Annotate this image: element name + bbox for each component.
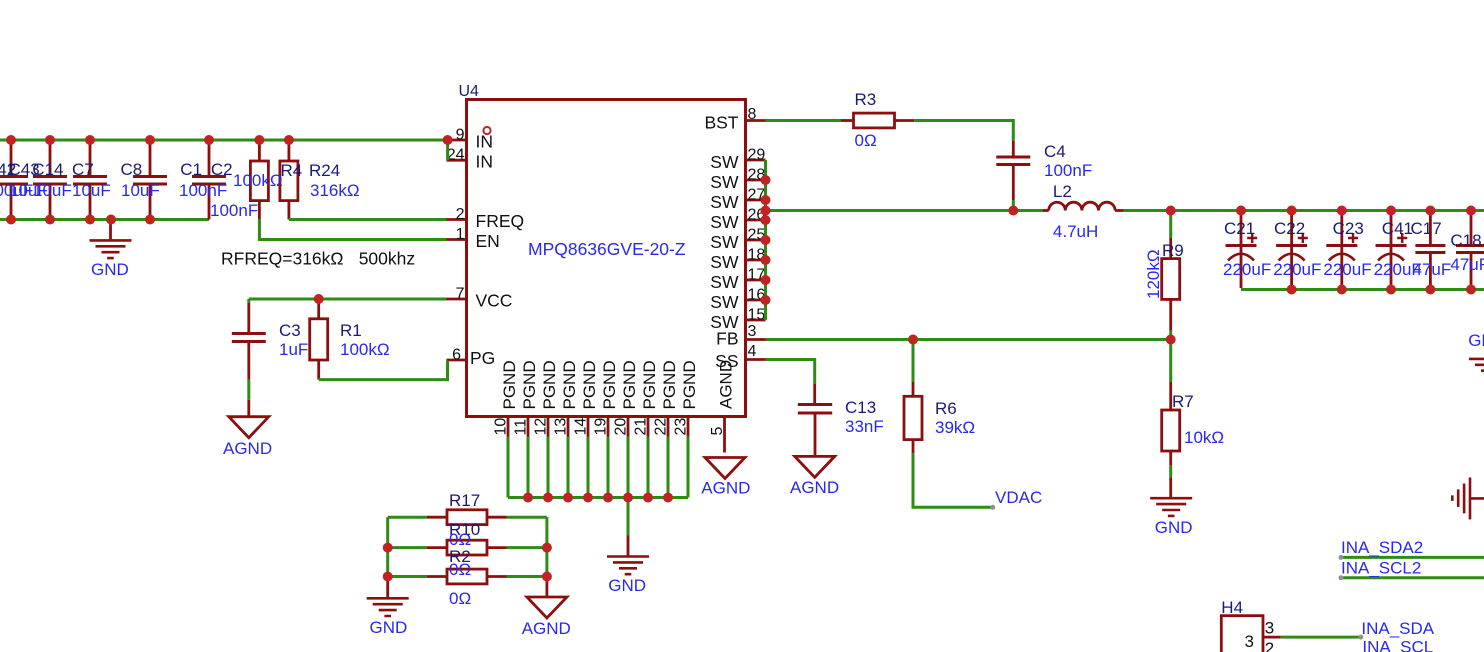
- wire R9 top: [1169, 211, 1172, 239]
- wire EN: [259, 219, 446, 240]
- svg-text:12: 12: [533, 418, 550, 436]
- lead AGND C3: [247, 400, 250, 416]
- svg-text:10uF: 10uF: [72, 181, 111, 200]
- wire VOUT rail: [1124, 209, 1484, 212]
- svg-text:47uF: 47uF: [1413, 260, 1452, 279]
- svg-text:47uF: 47uF: [1450, 255, 1484, 274]
- pin 8 BST stub: [746, 119, 766, 122]
- connector H4 body: [1221, 616, 1263, 652]
- svg-text:220uF: 220uF: [1323, 260, 1371, 279]
- pin 3 FB stub: [746, 338, 766, 341]
- junction out top: [1386, 206, 1396, 216]
- svg-text:24: 24: [447, 147, 465, 164]
- svg-text:10kΩ: 10kΩ: [1184, 428, 1224, 447]
- resistor R7: [1162, 410, 1180, 451]
- junction PGND: [523, 493, 533, 503]
- pin 28 SW stub: [746, 179, 766, 182]
- svg-text:R7: R7: [1172, 392, 1194, 411]
- pin 15 SW stub: [746, 319, 766, 322]
- pin 14 PGND stub: [587, 417, 590, 437]
- svg-text:AGND: AGND: [717, 360, 736, 409]
- svg-text:AGND: AGND: [223, 439, 272, 458]
- svg-text:15: 15: [748, 307, 766, 324]
- svg-text:14: 14: [573, 418, 590, 436]
- junction: [204, 135, 214, 145]
- svg-text:10uF: 10uF: [121, 181, 160, 200]
- pin 2 FREQ stub: [447, 218, 467, 221]
- lead left R17: [427, 516, 447, 519]
- svg-text:L2: L2: [1053, 182, 1072, 201]
- lead R4 top: [258, 140, 261, 161]
- junction out top: [1466, 206, 1476, 216]
- junction: [6, 215, 16, 225]
- svg-text:BST: BST: [704, 113, 738, 133]
- ground GND input caps: [90, 240, 132, 258]
- wire trio right: [507, 517, 547, 576]
- wire R3 to C4: [914, 121, 1013, 142]
- inductor L2: [1049, 202, 1115, 210]
- svg-text:R3: R3: [855, 90, 877, 109]
- wire C3 top corner: [247, 299, 250, 303]
- net anchor INA_SCL2: [1339, 575, 1344, 580]
- svg-text:RFREQ=316kΩ: RFREQ=316kΩ: [221, 249, 344, 269]
- junction out bottom: [1466, 285, 1476, 295]
- svg-text:AGND: AGND: [701, 479, 750, 498]
- svg-text:VDAC: VDAC: [995, 488, 1042, 507]
- resistor R3: [854, 113, 895, 128]
- svg-text:C3: C3: [279, 321, 301, 340]
- resistor R17: [447, 510, 487, 525]
- svg-text:316kΩ: 316kΩ: [310, 181, 360, 200]
- junction out top: [1236, 206, 1246, 216]
- lead R9 bottom: [1169, 299, 1172, 330]
- svg-text:100nF: 100nF: [179, 181, 227, 200]
- wire to pin 24: [446, 140, 449, 160]
- svg-text:C4: C4: [1044, 142, 1066, 161]
- op-amp U4 MPQ8636GVE-20-Z body: [467, 100, 746, 417]
- wire C4 to SW: [1012, 200, 1015, 211]
- svg-text:GND: GND: [370, 618, 408, 637]
- junction trio right1: [542, 543, 552, 553]
- wire trio right vertical: [545, 517, 548, 576]
- junction: [6, 135, 16, 145]
- junction: [45, 135, 55, 145]
- lead R9 top: [1169, 238, 1172, 259]
- capacitor C14: [73, 140, 107, 220]
- svg-text:SW: SW: [710, 152, 739, 172]
- pin 9 IN stub: [447, 139, 467, 142]
- junction out bottom: [1337, 285, 1347, 295]
- junction FB R9: [1166, 335, 1176, 345]
- pin 13 PGND stub: [567, 417, 570, 437]
- resistor R4: [250, 161, 268, 201]
- svg-text:R24: R24: [309, 161, 340, 180]
- pin 3 stub H4: [1263, 636, 1281, 639]
- svg-text:5: 5: [709, 427, 726, 436]
- lead R7 top: [1169, 382, 1172, 410]
- wire INA_SDA2: [1341, 556, 1484, 559]
- wire FB: [766, 338, 1171, 341]
- wire R7 to GND: [1169, 465, 1172, 477]
- resistor R2: [447, 569, 487, 584]
- junction trio right2: [542, 572, 552, 582]
- lead C3 bottom: [247, 343, 250, 380]
- wire SW bus vertical: [764, 160, 767, 320]
- svg-text:1: 1: [456, 226, 465, 243]
- wire R7 top: [1169, 340, 1172, 383]
- lead left R2: [427, 575, 447, 578]
- junction PGND: [663, 493, 673, 503]
- pin 23 PGND stub: [687, 417, 690, 437]
- svg-text:1uF: 1uF: [279, 340, 308, 359]
- lead AGND trio: [546, 577, 549, 597]
- lead R1 bottom: [317, 360, 320, 380]
- svg-text:7: 7: [456, 286, 465, 303]
- junction out top: [1337, 206, 1347, 216]
- wire SS to C13: [766, 360, 815, 384]
- svg-text:INA_SCL2: INA_SCL2: [1341, 559, 1421, 578]
- wire PGND drop: [667, 437, 670, 498]
- lead R7 bottom: [1169, 451, 1172, 465]
- svg-text:SW: SW: [710, 212, 739, 232]
- svg-text:MPQ8636GVE-20-Z: MPQ8636GVE-20-Z: [528, 239, 686, 259]
- wire PGND drop: [587, 437, 590, 498]
- svg-text:100kΩ: 100kΩ: [340, 340, 390, 359]
- svg-text:3: 3: [1265, 619, 1274, 638]
- lead C4 top: [1012, 141, 1015, 156]
- pin 5 AGND stub: [723, 417, 726, 453]
- pin 11 PGND stub: [527, 417, 530, 437]
- svg-text:22: 22: [653, 418, 670, 436]
- pin 1 EN stub: [447, 238, 467, 241]
- power AGND trio: [527, 597, 567, 618]
- junction out top: [1425, 206, 1435, 216]
- svg-text:11: 11: [513, 419, 530, 436]
- pin 24 IN stub: [447, 159, 467, 162]
- pin 18 SW stub: [746, 259, 766, 262]
- junction PGND: [563, 493, 573, 503]
- svg-text:20: 20: [613, 418, 630, 436]
- junction: [45, 215, 55, 225]
- lead L2 right: [1115, 209, 1124, 212]
- junction trio left2: [383, 572, 393, 582]
- lead R6 bottom: [912, 440, 915, 454]
- junction: [254, 135, 264, 145]
- svg-text:C7: C7: [72, 160, 94, 179]
- svg-text:0Ω: 0Ω: [449, 560, 471, 579]
- capacitor C3: [232, 334, 266, 342]
- junction pin9: [443, 135, 453, 145]
- svg-text:SW: SW: [710, 292, 739, 312]
- lead R3 left: [841, 119, 854, 122]
- wire PGND drop: [527, 437, 530, 498]
- resistor R24: [280, 161, 298, 201]
- junction SW: [761, 195, 771, 205]
- wire PGND drop: [567, 437, 570, 498]
- wire IN top rail: [0, 139, 448, 142]
- svg-text:GND: GND: [1155, 518, 1193, 537]
- pin 20 PGND stub: [627, 417, 630, 437]
- svg-text:C2: C2: [211, 160, 233, 179]
- lead GND R7: [1169, 477, 1172, 497]
- svg-text:FREQ: FREQ: [476, 211, 525, 231]
- svg-text:PGND: PGND: [500, 360, 519, 409]
- capacitor C43: [33, 140, 67, 220]
- svg-text:10: 10: [493, 418, 510, 436]
- capacitor C22: [1276, 211, 1308, 288]
- junction SW: [761, 175, 771, 185]
- svg-text:C17: C17: [1411, 219, 1442, 238]
- svg-text:GN: GN: [1468, 331, 1484, 350]
- svg-text:19: 19: [593, 418, 610, 436]
- junction FB R6: [908, 335, 918, 345]
- wire R6 top: [912, 340, 915, 383]
- svg-text:PGND: PGND: [680, 360, 699, 409]
- junction PGND: [623, 493, 633, 503]
- ground GND PGND: [607, 557, 649, 575]
- svg-text:R9: R9: [1162, 241, 1184, 260]
- pin 16 SW stub: [746, 299, 766, 302]
- svg-text:R17: R17: [449, 491, 480, 510]
- resistor R6: [904, 396, 922, 439]
- svg-text:PGND: PGND: [520, 360, 539, 409]
- pin 26 SW stub: [746, 219, 766, 222]
- lead C13 top: [813, 384, 816, 404]
- junction C4 SW: [1008, 206, 1018, 216]
- wire INA_SCL2: [1341, 576, 1484, 579]
- junction out top: [1287, 206, 1297, 216]
- wire R6 to VDAC: [913, 453, 993, 507]
- svg-text:AGND: AGND: [522, 619, 571, 638]
- wire PGND drop: [647, 437, 650, 498]
- svg-text:C22: C22: [1274, 219, 1305, 238]
- wire PGND drop: [627, 437, 630, 498]
- svg-text:SW: SW: [710, 252, 739, 272]
- svg-text:10uF: 10uF: [33, 181, 72, 200]
- wire trio left vertical: [386, 517, 389, 576]
- lead to GND: [109, 220, 112, 240]
- pin 19 PGND stub: [607, 417, 610, 437]
- svg-text:2: 2: [456, 206, 465, 223]
- pin 21 PGND stub: [647, 417, 650, 437]
- pin 29 SW stub: [746, 159, 766, 162]
- svg-text:C21: C21: [1224, 219, 1255, 238]
- lead L2 left: [1043, 209, 1049, 212]
- svg-text:FB: FB: [716, 329, 738, 349]
- power AGND C3: [229, 417, 269, 438]
- ground GND rotated (right edge): [1452, 478, 1484, 520]
- junction SW: [761, 295, 771, 305]
- svg-text:C41: C41: [1382, 219, 1413, 238]
- resistor R10: [447, 540, 487, 555]
- svg-text:8: 8: [748, 106, 757, 123]
- junction: [145, 215, 155, 225]
- lead C4 bottom: [1012, 166, 1015, 201]
- power AGND C13: [795, 456, 835, 477]
- svg-text:0Ω: 0Ω: [449, 589, 471, 608]
- wire PGND bus: [508, 496, 688, 499]
- wire PGND drop: [507, 437, 510, 498]
- svg-text:R1: R1: [340, 321, 362, 340]
- svg-text:C18: C18: [1450, 231, 1481, 250]
- svg-text:C14: C14: [32, 160, 63, 179]
- lead left R10: [427, 546, 447, 549]
- svg-text:PGND: PGND: [620, 360, 639, 409]
- svg-text:4: 4: [748, 343, 757, 360]
- svg-text:PGND: PGND: [640, 360, 659, 409]
- svg-text:PGND: PGND: [560, 360, 579, 409]
- net anchor INA_SDA: [1358, 635, 1363, 640]
- lead R4 bottom: [258, 201, 261, 219]
- power AGND pin5: [705, 458, 745, 479]
- wire trio left: [388, 517, 427, 576]
- svg-text:100nF: 100nF: [210, 201, 258, 220]
- svg-text:EN: EN: [476, 231, 500, 251]
- svg-text:IN: IN: [476, 132, 494, 152]
- junction VCC: [314, 294, 324, 304]
- pin 4 SS stub: [746, 358, 766, 361]
- capacitor C41: [1376, 211, 1408, 288]
- pin 10 PGND stub: [507, 417, 510, 437]
- svg-text:R4: R4: [281, 161, 303, 180]
- lead R24 top: [287, 140, 290, 161]
- ground GND trio: [367, 598, 409, 616]
- svg-text:INA_SDA: INA_SDA: [1361, 619, 1434, 638]
- lead right R17: [487, 516, 507, 519]
- svg-text:SW: SW: [710, 232, 739, 252]
- junction: [284, 135, 294, 145]
- wire FREQ: [289, 218, 447, 221]
- junction SW: [761, 255, 771, 265]
- svg-text:220uF: 220uF: [1273, 260, 1321, 279]
- pin 6 PG stub: [447, 359, 467, 362]
- wire R1 to PG: [319, 361, 448, 380]
- lead R24 bottom: [287, 201, 290, 220]
- svg-text:GND: GND: [91, 260, 129, 279]
- resistor R1: [310, 319, 328, 360]
- svg-text:120kΩ: 120kΩ: [1144, 249, 1163, 299]
- capacitor C21: [1226, 211, 1258, 288]
- svg-text:SW: SW: [710, 172, 739, 192]
- lead GND: [627, 536, 630, 556]
- ground GND output (partial): [1469, 359, 1484, 371]
- junction: [106, 215, 116, 225]
- junction PGND: [543, 493, 553, 503]
- svg-text:4.7uH: 4.7uH: [1053, 222, 1098, 241]
- pin 25 SW stub: [746, 239, 766, 242]
- capacitor C8: [133, 140, 167, 220]
- wire VCC: [249, 298, 447, 301]
- wire PGND drop: [687, 437, 690, 498]
- svg-text:PG: PG: [470, 348, 495, 368]
- junction PGND: [603, 493, 613, 503]
- svg-text:C1: C1: [180, 160, 202, 179]
- capacitor C17: [1415, 211, 1445, 288]
- lead R6 top: [912, 382, 915, 396]
- resistor R9: [1162, 259, 1180, 300]
- net anchor INA_SDA2: [1339, 555, 1344, 560]
- lead right R2: [487, 575, 507, 578]
- svg-text:PGND: PGND: [580, 360, 599, 409]
- svg-text:INA_SDA2: INA_SDA2: [1341, 538, 1423, 557]
- svg-text:PGND: PGND: [660, 360, 679, 409]
- svg-text:9: 9: [456, 127, 465, 144]
- svg-text:29: 29: [748, 147, 766, 164]
- wire PGND drop: [547, 437, 550, 498]
- junction SW: [761, 206, 771, 216]
- svg-text:C23: C23: [1333, 219, 1364, 238]
- lead R3 right: [895, 119, 915, 122]
- lead C13 bottom: [814, 414, 817, 455]
- svg-text:3: 3: [1245, 632, 1254, 651]
- svg-text:6: 6: [452, 347, 461, 364]
- wire SW to L2: [766, 209, 1044, 212]
- svg-text:13: 13: [553, 418, 570, 436]
- wire BST: [766, 119, 842, 122]
- svg-text:23: 23: [673, 418, 690, 436]
- capacitor C4: [996, 157, 1030, 165]
- capacitor C1 C2: [192, 140, 226, 220]
- svg-text:PGND: PGND: [540, 360, 559, 409]
- junction R9 top: [1166, 206, 1176, 216]
- svg-text:220uF: 220uF: [1223, 260, 1271, 279]
- wire PGND drop: [607, 437, 610, 498]
- svg-text:SW: SW: [710, 272, 739, 292]
- wire PGND to GND: [627, 498, 630, 536]
- svg-text:PGND: PGND: [600, 360, 619, 409]
- wire output bottom rail: [1241, 288, 1484, 291]
- capacitor C23: [1326, 211, 1358, 288]
- svg-text:100kΩ: 100kΩ: [233, 171, 283, 190]
- pin 12 PGND stub: [547, 417, 550, 437]
- svg-text:500khz: 500khz: [359, 249, 415, 269]
- lead C3 top: [247, 303, 250, 333]
- svg-text:100nF: 100nF: [1044, 161, 1092, 180]
- svg-text:3: 3: [748, 323, 757, 340]
- lead right R10: [487, 546, 507, 549]
- svg-text:GND: GND: [608, 576, 646, 595]
- junction: [85, 135, 95, 145]
- capacitor C42: [0, 140, 28, 220]
- svg-text:C8: C8: [121, 160, 143, 179]
- svg-text:SW: SW: [710, 192, 739, 212]
- lead R1 top: [317, 299, 320, 319]
- svg-text:VCC: VCC: [476, 291, 513, 311]
- wire R9 bottom: [1169, 330, 1172, 340]
- svg-text:AGND: AGND: [790, 478, 839, 497]
- junction SW: [761, 275, 771, 285]
- junction: [85, 215, 95, 225]
- svg-text:33nF: 33nF: [845, 417, 884, 436]
- junction out bottom: [1386, 285, 1396, 295]
- svg-text:39kΩ: 39kΩ: [935, 418, 975, 437]
- junction: [145, 135, 155, 145]
- pin 17 SW stub: [746, 279, 766, 282]
- no-connect circle at IN: [483, 127, 490, 134]
- pin 27 SW stub: [746, 199, 766, 202]
- junction SW: [761, 235, 771, 245]
- capacitor C13: [798, 405, 832, 414]
- svg-text:0Ω: 0Ω: [855, 131, 877, 150]
- ground GND R7: [1150, 498, 1192, 516]
- svg-text:R6: R6: [935, 399, 957, 418]
- svg-text:INA_SCL: INA_SCL: [1362, 638, 1433, 652]
- net anchor VDAC: [990, 505, 995, 510]
- svg-text:H4: H4: [1221, 598, 1243, 617]
- capacitor C18: [1456, 211, 1484, 288]
- junction trio left1: [383, 543, 393, 553]
- junction PGND: [643, 493, 653, 503]
